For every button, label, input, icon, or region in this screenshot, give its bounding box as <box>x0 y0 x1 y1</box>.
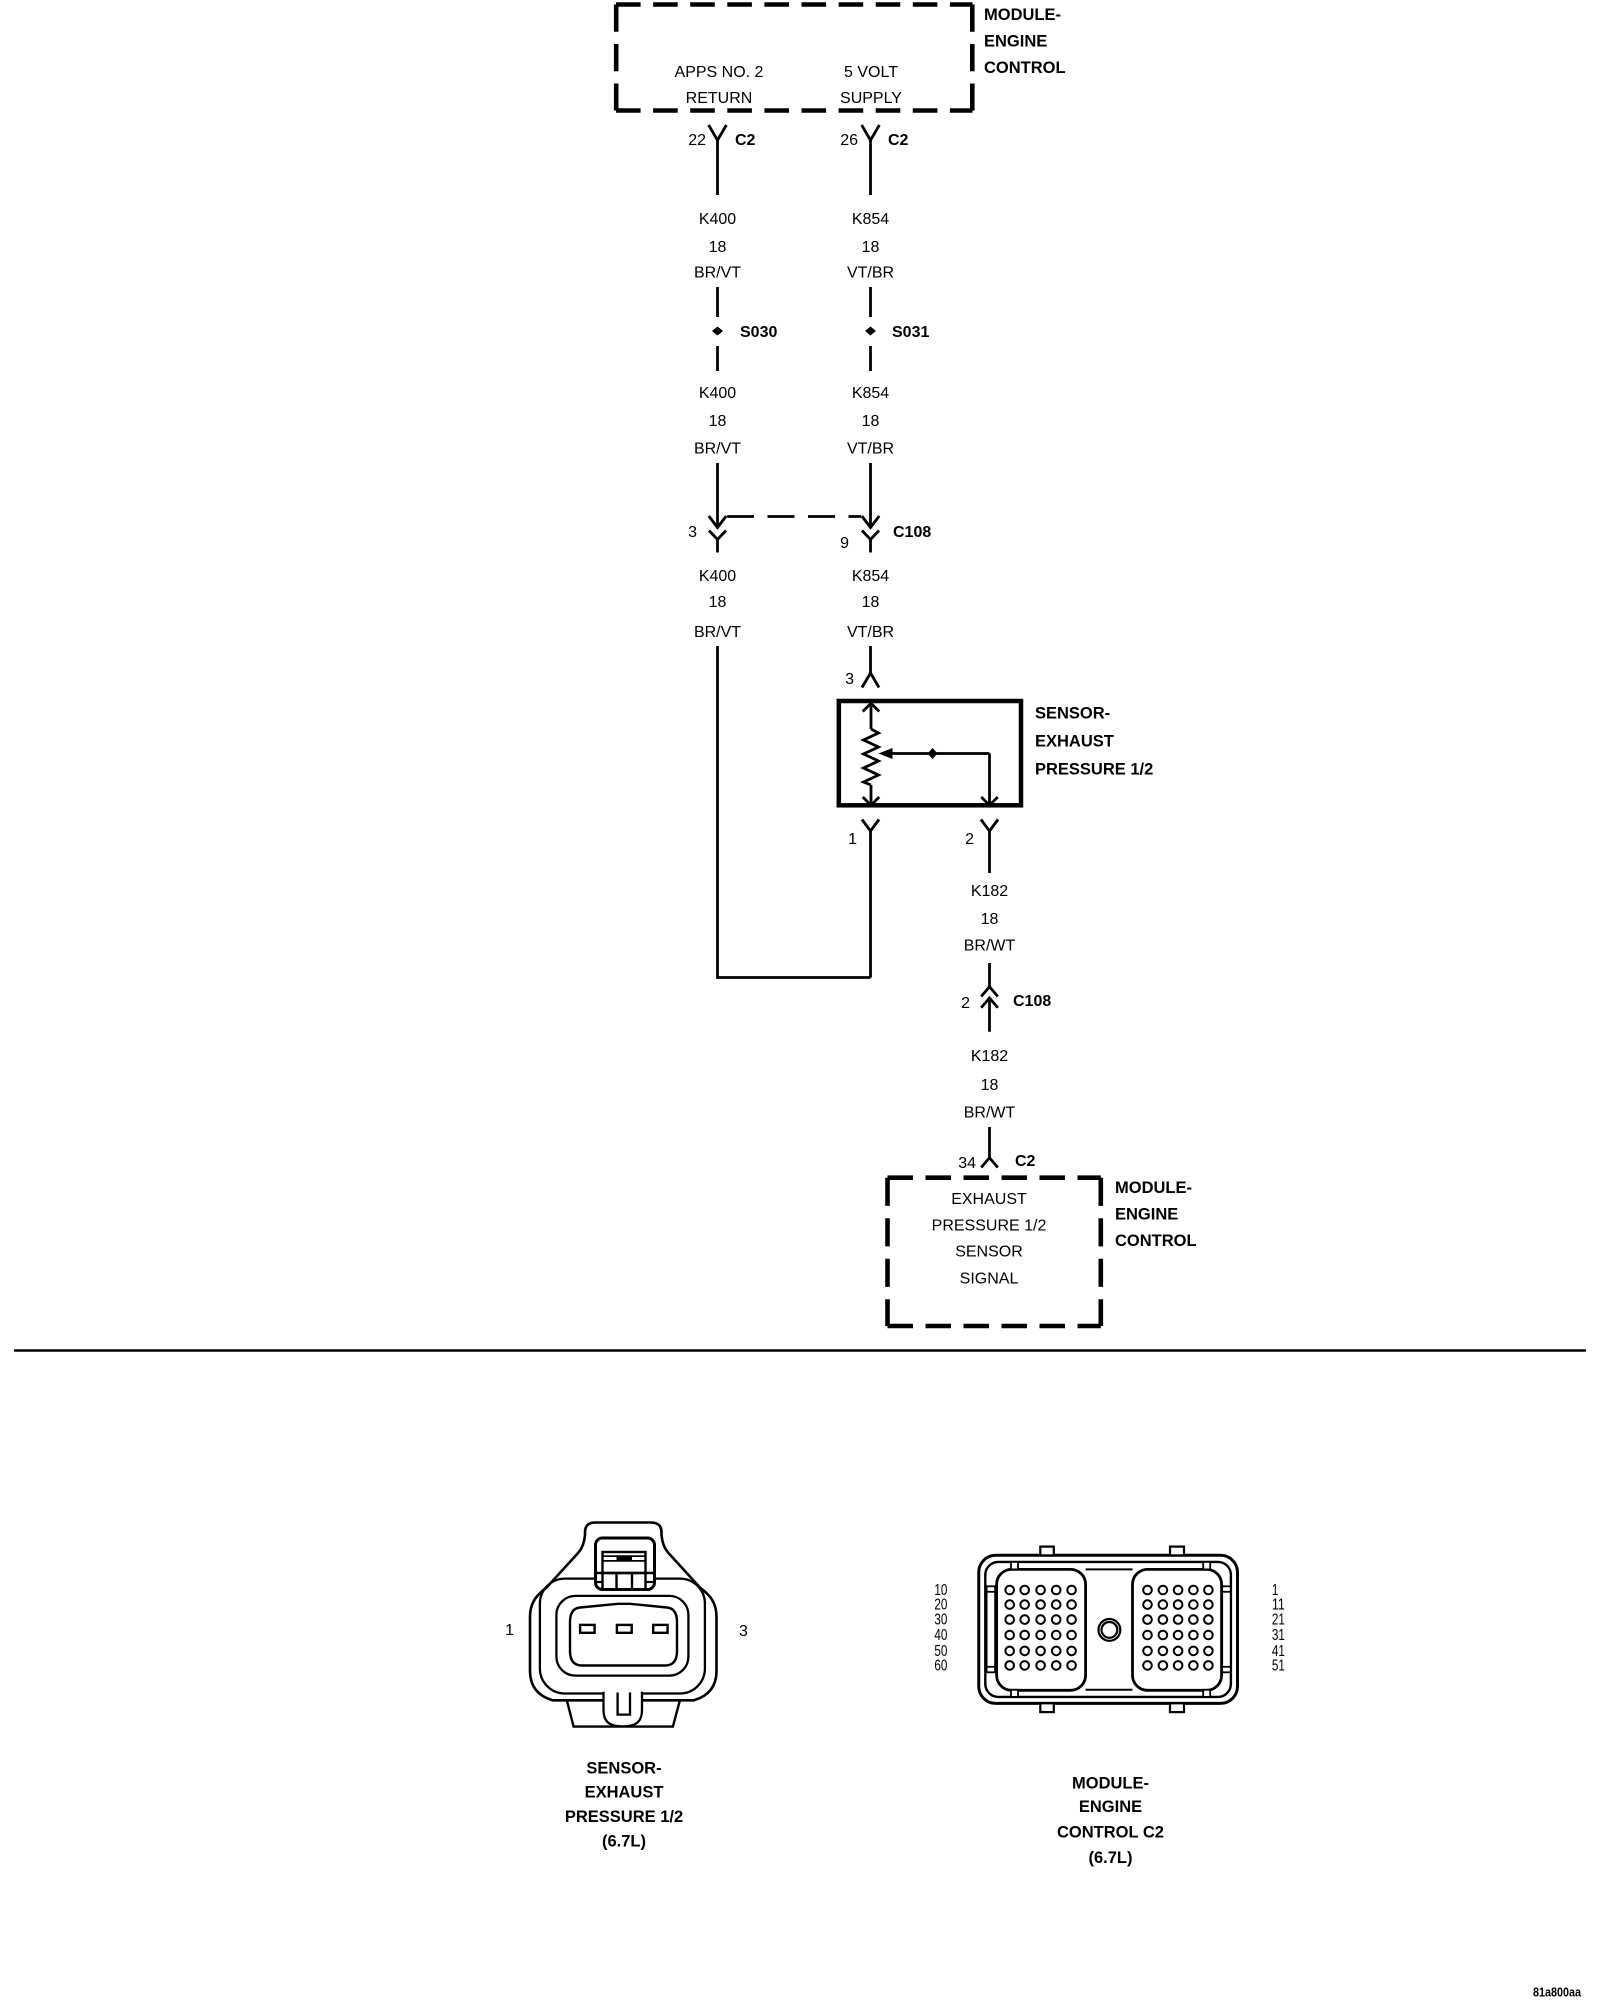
wire label K182 18 BR/WT (block 1) <box>964 883 1016 955</box>
pin row labels right: 1-51 <box>1272 1582 1285 1674</box>
label: SENSOR-EXHAUST PRESSURE 1/2 (6.7L) <box>565 1760 683 1851</box>
pin block right <box>1133 1569 1222 1690</box>
sensor box: SENSOR-EXHAUST PRESSURE 1/2 <box>839 701 1021 805</box>
svg-text:ENGINE: ENGINE <box>1079 1798 1142 1816</box>
separator line <box>14 1349 1586 1352</box>
svg-text:BR/WT: BR/WT <box>964 1105 1016 1122</box>
mounting tab top-left <box>1040 1547 1054 1556</box>
svg-text:SUPPLY: SUPPLY <box>840 90 902 107</box>
node label: EXHAUST PRESSURE 1/2 SENSOR SIGNAL <box>932 1191 1047 1288</box>
connector pin 1 at sensor <box>848 820 879 978</box>
svg-text:2: 2 <box>961 995 970 1012</box>
svg-text:C2: C2 <box>735 132 756 149</box>
wire K182 segment into module pin 34 <box>988 1127 991 1158</box>
wire K400 segment into C108 <box>716 463 719 527</box>
svg-text:5 VOLT: 5 VOLT <box>844 64 898 81</box>
svg-text:MODULE-: MODULE- <box>1115 1179 1192 1197</box>
svg-text:EXHAUST: EXHAUST <box>585 1784 664 1802</box>
svg-text:SENSOR-: SENSOR- <box>586 1760 661 1778</box>
wire K182 segment into C108 pin 2 <box>988 963 991 987</box>
svg-text:18: 18 <box>862 594 880 611</box>
svg-text:18: 18 <box>862 239 880 256</box>
svg-text:K400: K400 <box>699 211 736 228</box>
svg-text:51: 51 <box>1272 1658 1285 1675</box>
svg-text:BR/WT: BR/WT <box>964 938 1016 955</box>
svg-text:K400: K400 <box>699 568 736 585</box>
svg-text:SENSOR: SENSOR <box>955 1244 1023 1261</box>
wire K854 segment into sensor pin 3 <box>869 646 872 673</box>
pin row labels left: 10-60 <box>934 1582 947 1674</box>
svg-text:26: 26 <box>840 132 858 149</box>
connector pin 2 at sensor <box>965 820 998 874</box>
connector pin 26 C2 <box>840 125 908 195</box>
svg-text:18: 18 <box>862 413 880 430</box>
svg-text:SIGNAL: SIGNAL <box>960 1271 1019 1288</box>
wire K854 segment above splice <box>869 287 872 317</box>
wire K854 segment below splice <box>869 346 872 371</box>
corner tick marks <box>987 1562 1231 1697</box>
svg-text:EXHAUST: EXHAUST <box>1035 733 1114 751</box>
label: SENSOR-EXHAUST PRESSURE 1/2 <box>1035 705 1153 779</box>
svg-text:BR/VT: BR/VT <box>694 624 741 641</box>
svg-text:3: 3 <box>688 524 697 541</box>
wire label K400 18 BR/VT (block 3) <box>694 568 741 641</box>
svg-text:BR/VT: BR/VT <box>694 441 741 458</box>
svg-text:C2: C2 <box>888 132 909 149</box>
mounting tab bottom-left <box>1040 1703 1054 1712</box>
svg-text:MODULE-: MODULE- <box>984 6 1061 24</box>
svg-text:31: 31 <box>1272 1627 1285 1644</box>
wire K400 segment above splice <box>716 287 719 317</box>
svg-text:K182: K182 <box>971 1048 1008 1065</box>
potentiometer wiper arm <box>879 748 998 805</box>
svg-text:EXHAUST: EXHAUST <box>951 1191 1027 1208</box>
svg-text:ENGINE: ENGINE <box>1115 1206 1178 1224</box>
svg-text:PRESSURE 1/2: PRESSURE 1/2 <box>1035 761 1153 779</box>
svg-text:81a800aa: 81a800aa <box>1533 1985 1582 2000</box>
svg-text:CONTROL: CONTROL <box>1115 1232 1197 1250</box>
wire label K854 18 VT/BR (block 3) <box>847 568 894 641</box>
svg-text:K854: K854 <box>852 211 889 228</box>
svg-text:C108: C108 <box>893 524 931 541</box>
label: MODULE-ENGINE CONTROL C2 (6.7L) <box>1057 1775 1164 1867</box>
svg-text:1: 1 <box>848 831 857 848</box>
svg-text:18: 18 <box>709 239 727 256</box>
wire label K854 18 VT/BR (block 2) <box>847 385 894 458</box>
svg-text:S031: S031 <box>892 324 929 341</box>
svg-text:3: 3 <box>739 1623 748 1640</box>
splice S031 <box>865 324 929 341</box>
connector face: seal ring 3 <box>556 1596 688 1676</box>
svg-text:2: 2 <box>965 831 974 848</box>
svg-text:(6.7L): (6.7L) <box>602 1833 646 1851</box>
svg-text:ENGINE: ENGINE <box>984 33 1047 51</box>
connector face: seal ring 2 <box>540 1579 705 1694</box>
svg-text:K854: K854 <box>852 568 889 585</box>
connector face: latch tab <box>596 1538 655 1590</box>
svg-text:3: 3 <box>845 671 854 688</box>
pin holes left block <box>1005 1586 1075 1670</box>
svg-text:BR/VT: BR/VT <box>694 265 741 282</box>
label: MODULE-ENGINE CONTROL (bottom) <box>1115 1179 1197 1250</box>
svg-text:C108: C108 <box>1013 993 1051 1010</box>
pin slot 1 <box>580 1625 595 1633</box>
svg-text:MODULE-: MODULE- <box>1072 1775 1149 1793</box>
pin holes right block <box>1143 1586 1213 1670</box>
connector pin 22 C2 <box>688 125 755 195</box>
pin slot 3 <box>653 1625 667 1633</box>
svg-text:34: 34 <box>958 1155 976 1172</box>
svg-text:18: 18 <box>709 594 727 611</box>
in-line connector C108 pin 3 (male/female halves) <box>688 516 726 553</box>
pin block left <box>997 1569 1086 1690</box>
mounting tab bottom-right <box>1170 1703 1184 1712</box>
svg-text:9: 9 <box>840 535 849 552</box>
svg-text:K182: K182 <box>971 883 1008 900</box>
svg-text:K400: K400 <box>699 385 736 402</box>
module U1: MODULE-ENGINE CONTROL (top dashed box) <box>616 5 973 111</box>
wire label K400 18 BR/VT (block 1) <box>694 211 741 282</box>
pin slot 2 <box>617 1625 632 1633</box>
svg-text:CONTROL: CONTROL <box>984 59 1066 77</box>
wire K400 segment below splice <box>716 346 719 371</box>
connector pin 34 C2 at module <box>958 1153 1035 1172</box>
in-line connector C108 pin 9 (male/female halves) <box>840 516 931 553</box>
svg-text:PRESSURE 1/2: PRESSURE 1/2 <box>565 1808 683 1826</box>
label: MODULE-ENGINE CONTROL (top) <box>984 6 1066 77</box>
node label: 5 VOLT SUPPLY (pin function) <box>840 64 902 107</box>
svg-text:40: 40 <box>934 1627 947 1644</box>
svg-text:VT/BR: VT/BR <box>847 441 894 458</box>
splice S030 <box>712 324 777 341</box>
svg-text:VT/BR: VT/BR <box>847 265 894 282</box>
node label: APPS NO. 2 RETURN (pin function) <box>675 64 764 107</box>
svg-text:18: 18 <box>981 911 999 928</box>
connector face: inner socket <box>570 1604 677 1666</box>
in-line connector C108 pin 2 (halves, reversed) <box>961 987 1051 1032</box>
svg-text:18: 18 <box>709 413 727 430</box>
svg-text:(6.7L): (6.7L) <box>1088 1849 1132 1867</box>
center jack screw <box>1099 1619 1121 1641</box>
svg-text:22: 22 <box>688 132 706 149</box>
svg-text:APPS NO. 2: APPS NO. 2 <box>675 64 764 81</box>
svg-text:SENSOR-: SENSOR- <box>1035 705 1110 723</box>
svg-text:18: 18 <box>981 1077 999 1094</box>
svg-text:VT/BR: VT/BR <box>847 624 894 641</box>
connector face: SENSOR-EXHAUST PRESSURE 1/2 shell <box>530 1523 717 1727</box>
connector pin 3 at sensor <box>845 671 879 688</box>
wire label K400 18 BR/VT (block 2) <box>694 385 741 458</box>
potentiometer R (inside sensor) <box>863 703 880 805</box>
svg-text:60: 60 <box>934 1658 947 1675</box>
svg-text:C2: C2 <box>1015 1153 1036 1170</box>
dashed tie line between C108 halves <box>727 515 861 518</box>
svg-text:K854: K854 <box>852 385 889 402</box>
module U1: MODULE-ENGINE CONTROL (bottom dashed box) <box>888 1178 1101 1326</box>
wire label K182 18 BR/WT (block 2) <box>964 1048 1016 1122</box>
svg-text:CONTROL C2: CONTROL C2 <box>1057 1824 1164 1842</box>
wire K854 segment into C108 <box>869 463 872 528</box>
connector face: MODULE-ENGINE CONTROL C2 shell <box>979 1555 1238 1703</box>
wire label K854 18 VT/BR (block 1) <box>847 211 894 282</box>
svg-text:1: 1 <box>505 1622 514 1639</box>
svg-text:RETURN: RETURN <box>686 90 753 107</box>
wire K400 long run to sensor pin 1 <box>718 646 871 978</box>
mounting tab top-right <box>1170 1547 1184 1556</box>
svg-text:PRESSURE 1/2: PRESSURE 1/2 <box>932 1218 1047 1235</box>
connector face: keyway U notch <box>604 1692 643 1727</box>
svg-text:S030: S030 <box>740 324 777 341</box>
